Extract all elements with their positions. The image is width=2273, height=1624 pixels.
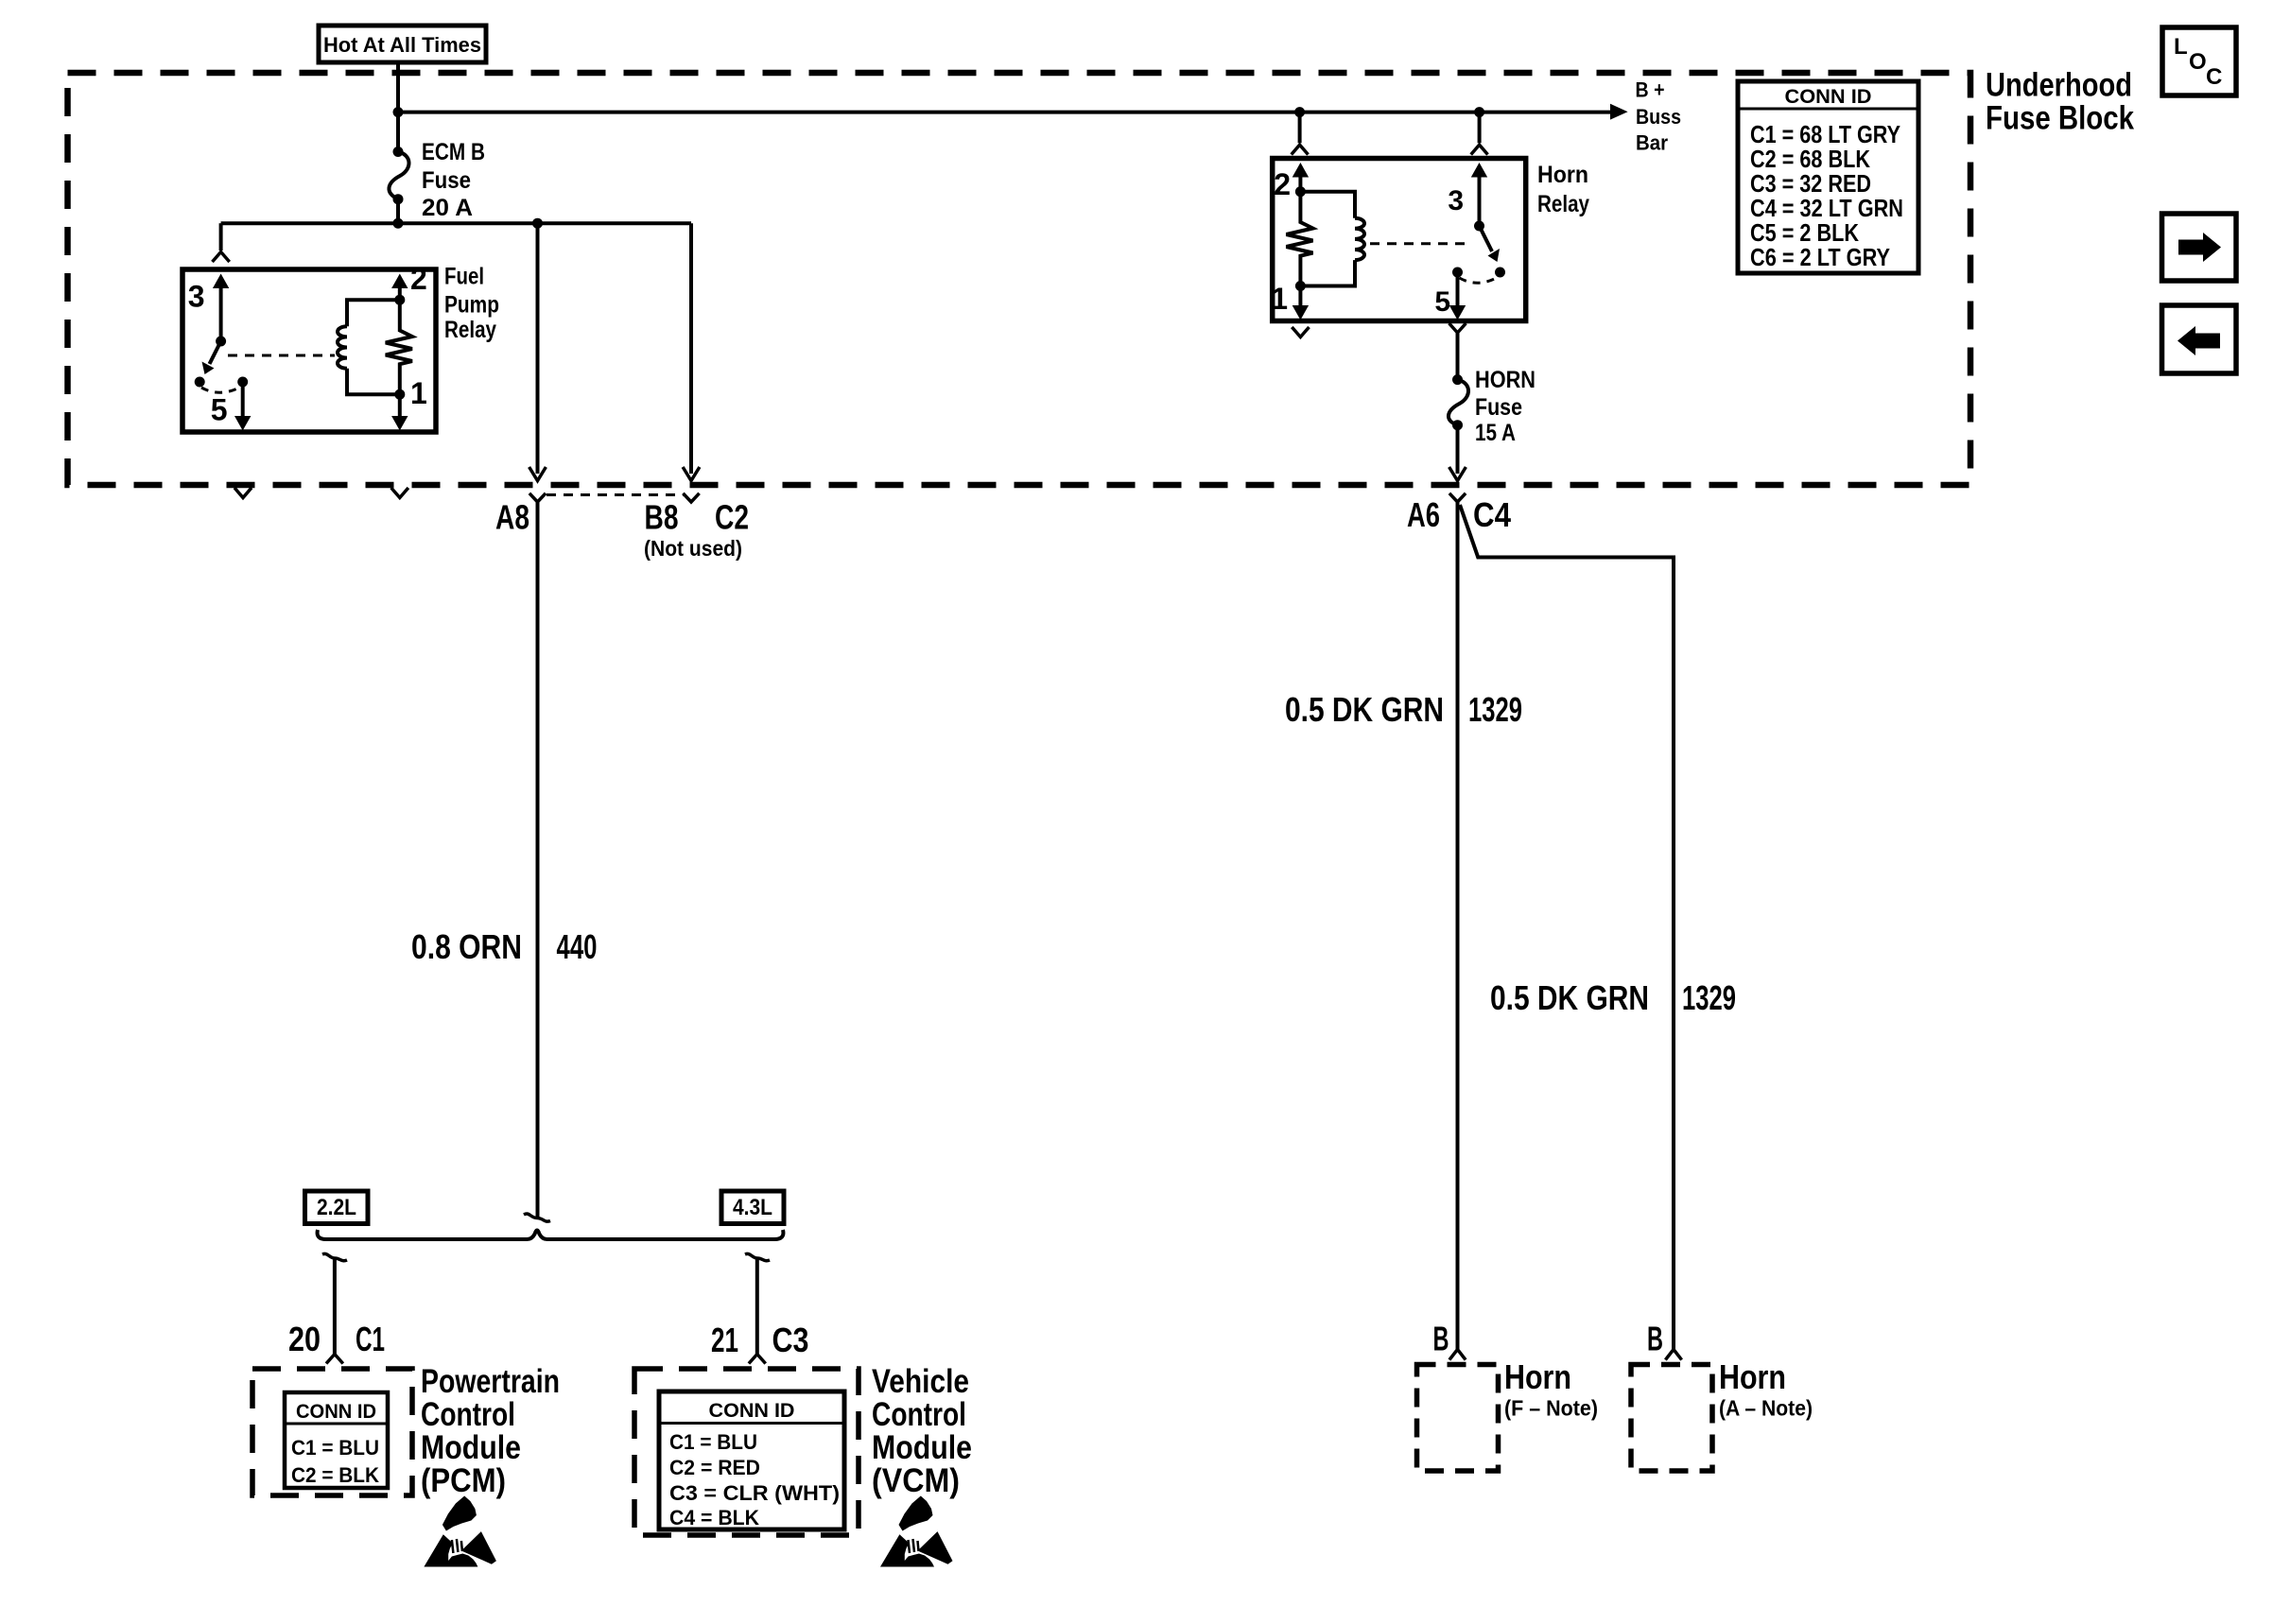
svg-text:B: B — [1647, 1320, 1663, 1358]
dashed throw arc — [201, 387, 241, 392]
relay Horn Relay box — [1273, 159, 1526, 321]
svg-text:2: 2 — [410, 262, 427, 296]
svg-text:Module: Module — [421, 1429, 521, 1466]
svg-text:5: 5 — [211, 393, 228, 427]
svg-text:C: C — [2206, 64, 2222, 90]
arrow B+ — [1610, 104, 1628, 120]
Hot At All Times label box — [319, 26, 486, 62]
wire B+ buss bar — [398, 111, 1610, 114]
svg-text:Horn: Horn — [1537, 162, 1588, 188]
svg-text:0.8 ORN: 0.8 ORN — [411, 927, 522, 966]
svg-text:Bar: Bar — [1636, 131, 1668, 155]
svg-text:Horn: Horn — [1719, 1357, 1786, 1396]
svg-text:(A – Note): (A – Note) — [1719, 1396, 1813, 1421]
wire to fuel pump relay pin 3 — [219, 223, 223, 251]
label PCM — [421, 1363, 560, 1499]
svg-text:Buss: Buss — [1636, 105, 1681, 129]
svg-text:CONN ID: CONN ID — [1785, 86, 1872, 108]
svg-text:Control: Control — [421, 1396, 515, 1433]
switch arm — [210, 341, 221, 364]
label 0.8 ORN 440 — [411, 927, 598, 966]
svg-text:15 A: 15 A — [1475, 420, 1516, 446]
svg-text:Module: Module — [872, 1429, 972, 1466]
svg-text:ECM B: ECM B — [422, 139, 485, 165]
svg-text:C2: C2 — [715, 498, 749, 537]
label A8 — [495, 498, 529, 537]
wire 20 C1 drop — [322, 1253, 347, 1260]
dashed throw arc horn relay — [1460, 277, 1499, 283]
svg-text:4.3L: 4.3L — [733, 1195, 772, 1220]
relay Fuel Pump Relay box — [182, 269, 436, 432]
pin 3 — [1448, 163, 1487, 226]
nav arrow right box — [2162, 214, 2237, 281]
label VCM — [872, 1363, 972, 1499]
svg-text:21: 21 — [711, 1321, 738, 1359]
dashed link switch to coil — [228, 354, 335, 357]
node bus junction — [393, 107, 404, 117]
svg-text:Control: Control — [872, 1396, 966, 1433]
wire 21 C3 drop — [745, 1253, 770, 1260]
svg-text:O: O — [2189, 49, 2207, 75]
wire B8 drop — [689, 223, 693, 474]
connector link dashed — [547, 493, 685, 496]
label Underhood Fuse Block — [1986, 67, 2134, 137]
switch arm horn relay — [1480, 226, 1493, 251]
svg-text:1329: 1329 — [1682, 978, 1736, 1017]
svg-text:C2 = BLK: C2 = BLK — [291, 1463, 379, 1487]
svg-text:1: 1 — [410, 376, 427, 410]
svg-text:C3: C3 — [772, 1321, 809, 1359]
module PCM dashed box — [252, 1369, 412, 1495]
connector A6 C4 — [1449, 493, 1466, 502]
svg-text:C1: C1 — [356, 1320, 385, 1358]
svg-text:C4: C4 — [1473, 495, 1511, 534]
label HORN Fuse 15 A — [1475, 367, 1536, 446]
label Horn Relay — [1537, 162, 1589, 217]
PCM conn id table — [285, 1392, 388, 1488]
coil of horn relay — [1300, 192, 1355, 218]
wire 0.8 ORN 440 — [536, 502, 540, 1218]
wire pin5 to HORN fuse — [1456, 333, 1460, 380]
node A8 branch — [532, 218, 543, 229]
svg-text:1329: 1329 — [1468, 690, 1522, 729]
svg-text:L: L — [2174, 34, 2188, 60]
svg-text:440: 440 — [557, 927, 598, 966]
svg-text:C2 = RED: C2 = RED — [669, 1456, 760, 1479]
svg-text:3: 3 — [1448, 185, 1464, 216]
label B+ Buss Bar — [1636, 78, 1682, 155]
pin 3 — [188, 274, 230, 342]
svg-text:Vehicle: Vehicle — [872, 1363, 969, 1400]
node fuse junction — [393, 218, 404, 229]
connector below pin 1 — [1292, 327, 1309, 337]
connector entry at relay pin 3 — [213, 252, 230, 263]
svg-text:Relay: Relay — [1537, 191, 1589, 217]
svg-text:C3 = CLR (WHT): C3 = CLR (WHT) — [669, 1481, 840, 1505]
label ECM B Fuse 20 A — [422, 139, 485, 221]
engine label 2.2L box — [305, 1191, 369, 1224]
VCM conn id table — [659, 1391, 844, 1529]
horn F-note dashed box — [1417, 1365, 1499, 1472]
coil of relay — [347, 300, 400, 326]
pin 1 — [1271, 282, 1309, 320]
svg-text:Hot At All Times: Hot At All Times — [323, 33, 481, 57]
svg-text:(Not used): (Not used) — [644, 536, 742, 561]
svg-text:0.5 DK GRN: 0.5 DK GRN — [1490, 978, 1649, 1017]
engine label 4.3L box — [721, 1191, 784, 1224]
svg-text:C6 = 2 LT GRY: C6 = 2 LT GRY — [1750, 243, 1890, 271]
wire break at splice — [524, 1214, 550, 1221]
pin 2 — [1274, 163, 1309, 201]
svg-text:(VCM): (VCM) — [872, 1462, 960, 1499]
svg-text:1: 1 — [1271, 282, 1288, 316]
label 0.5 DK GRN 1329 branch — [1490, 978, 1736, 1017]
svg-text:Relay: Relay — [444, 317, 496, 343]
svg-text:Powertrain: Powertrain — [421, 1363, 560, 1400]
pin 1 — [391, 376, 427, 431]
svg-text:2: 2 — [1274, 167, 1291, 201]
svg-text:CONN ID: CONN ID — [296, 1401, 376, 1423]
resistor of horn relay — [1286, 192, 1312, 286]
wire branch to A note horn — [1460, 505, 1674, 1349]
svg-text:0.5 DK GRN: 0.5 DK GRN — [1285, 690, 1444, 729]
wire 0.5 DK GRN 1329 to F horn — [1456, 502, 1460, 1349]
connector A8 — [529, 493, 546, 502]
svg-text:Pump: Pump — [444, 292, 499, 319]
svg-text:C1 = BLU: C1 = BLU — [291, 1436, 379, 1460]
connector below pin 1 — [391, 488, 408, 498]
wire A8 drop — [536, 223, 540, 474]
svg-text:A8: A8 — [495, 498, 529, 537]
svg-text:B +: B + — [1636, 78, 1665, 102]
svg-text:5: 5 — [1434, 286, 1450, 318]
wire horizontal below fuse — [221, 221, 691, 225]
svg-text:CONN ID: CONN ID — [709, 1400, 795, 1422]
connector B8 C2 — [683, 493, 699, 502]
wire from Hot At All Times down — [396, 62, 400, 112]
pin 5 — [1434, 272, 1466, 320]
svg-text:(F – Note): (F – Note) — [1504, 1396, 1598, 1421]
switch contacts horn relay — [1452, 268, 1463, 278]
connector below pin 5 — [234, 488, 252, 498]
svg-text:Fuse Block: Fuse Block — [1986, 100, 2134, 137]
svg-text:C4 = BLK: C4 = BLK — [669, 1506, 759, 1529]
svg-text:(PCM): (PCM) — [421, 1462, 506, 1499]
label 0.5 DK GRN 1329 — [1285, 690, 1522, 729]
svg-text:C1 = BLU: C1 = BLU — [669, 1430, 757, 1454]
svg-text:Underhood: Underhood — [1986, 67, 2132, 104]
svg-text:Horn: Horn — [1504, 1357, 1571, 1396]
pin 2 — [391, 262, 427, 300]
svg-text:Fuse: Fuse — [422, 167, 471, 194]
switch contacts — [195, 377, 205, 388]
wire drop to horn relay pin 2 — [1298, 112, 1302, 144]
svg-text:B8: B8 — [645, 498, 679, 537]
svg-text:Fuse: Fuse — [1475, 394, 1522, 421]
esd symbol PCM — [424, 1496, 496, 1567]
fuse ECM B 20A — [396, 112, 400, 152]
horn A-note dashed box — [1631, 1365, 1712, 1472]
svg-text:HORN: HORN — [1475, 367, 1536, 393]
svg-text:20: 20 — [288, 1320, 321, 1358]
svg-text:A6: A6 — [1407, 495, 1440, 534]
resistor of relay — [386, 300, 412, 394]
esd symbol VCM — [880, 1496, 953, 1567]
svg-text:Fuel: Fuel — [444, 264, 484, 290]
svg-text:B: B — [1433, 1320, 1449, 1358]
dashed link coil to switch — [1370, 242, 1472, 245]
svg-text:20 A: 20 A — [422, 195, 473, 221]
connector B at A horn — [1665, 1350, 1681, 1360]
pin 5 — [211, 382, 252, 431]
brace splice — [318, 1230, 784, 1239]
svg-text:2.2L: 2.2L — [317, 1195, 356, 1220]
wire fuse to A6 — [1456, 425, 1460, 474]
label Fuel Pump Relay — [444, 264, 499, 344]
svg-text:3: 3 — [188, 280, 205, 314]
connector B at F horn — [1449, 1350, 1466, 1360]
nav arrow left box — [2162, 305, 2237, 373]
connector below pin 5 — [1449, 323, 1466, 333]
wire drop to horn relay pin 3 — [1478, 112, 1482, 144]
module VCM dashed box — [634, 1369, 859, 1535]
loc symbol box — [2162, 27, 2236, 95]
conn id table underhood — [1738, 81, 1918, 273]
fuse HORN 15A — [1452, 374, 1463, 385]
underhood fuse block dashed box — [68, 73, 1971, 485]
